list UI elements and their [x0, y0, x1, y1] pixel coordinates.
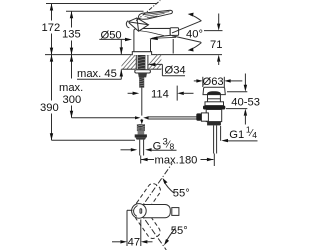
svg-text:40°: 40° — [186, 29, 203, 41]
svg-text:max.180: max.180 — [155, 154, 198, 166]
lever open position dash-dot line — [136, 0, 160, 20]
top view lever slot — [140, 209, 142, 213]
extension line handle closed top level — [66, 10, 144, 12]
hose extension to max180 — [140, 156, 142, 164]
threaded rod below nut — [139, 77, 144, 87]
svg-text:55°: 55° — [173, 187, 190, 199]
hose thread block — [137, 124, 145, 131]
label G3/8 underline — [152, 149, 177, 151]
svg-text:172: 172 — [42, 22, 61, 34]
pop-up rod horizontal — [148, 117, 199, 119]
label max.45 arrow to deck underside — [120, 70, 123, 80]
top view centerline upper — [139, 163, 172, 211]
dimension 172 line — [50, 4, 53, 55]
faucet shank thread in deck — [138, 55, 146, 70]
spout outlet centerline — [172, 39, 174, 54]
label Ø34 leader — [148, 63, 185, 76]
thread G3/8 arrows — [121, 148, 152, 151]
reference line supply connection level — [72, 117, 137, 119]
deck top line — [45, 54, 222, 56]
svg-text:390: 390 — [40, 102, 59, 114]
svg-text:135: 135 — [62, 29, 81, 41]
deck underside line — [122, 68, 162, 70]
top view base circle — [132, 204, 147, 219]
aerator block — [170, 28, 178, 36]
55 upper arc arrow — [162, 178, 174, 194]
svg-text:40-53: 40-53 — [231, 96, 260, 108]
top view dashed handle lower 55 — [133, 207, 162, 240]
top view base inner arc — [134, 206, 138, 217]
tailpipe extension line — [213, 154, 215, 167]
top view aerator tip — [172, 208, 179, 216]
svg-text:max.: max. — [59, 82, 83, 94]
dimension 71 — [204, 14, 223, 66]
waste neck — [208, 95, 221, 102]
40 degree upper arc arrow — [188, 13, 202, 21]
label Ø50 underline — [99, 38, 126, 40]
40 degree lower arc arrow — [188, 43, 202, 52]
lever blade — [138, 10, 172, 19]
label Ø50 arrow to body — [125, 38, 132, 41]
spout flow arrow — [149, 37, 176, 41]
svg-text:114: 114 — [151, 89, 169, 101]
dimension 40-53 — [226, 74, 247, 125]
hose tails — [140, 140, 144, 156]
deck hatch right block — [144, 53, 175, 70]
waste flange rim — [203, 106, 225, 110]
dimension 47 right extension — [140, 220, 142, 247]
40 degree upper leader — [172, 21, 201, 33]
hose small down arrow — [140, 119, 143, 124]
dimension 114 right arrow — [177, 92, 193, 95]
svg-text:47: 47 — [128, 236, 140, 248]
waste cap — [203, 87, 225, 94]
top view centerline lower — [139, 211, 166, 250]
svg-text:71: 71 — [210, 39, 222, 51]
reference line hose-end level — [52, 139, 136, 141]
waste body — [206, 110, 222, 122]
connection point arrows — [135, 116, 149, 119]
pull rod thin line — [141, 88, 143, 116]
dimension max.300 line — [70, 55, 73, 118]
svg-text:55°: 55° — [171, 225, 188, 237]
label max.45 underline — [77, 78, 121, 80]
deck hole right wall — [147, 55, 149, 70]
faucet body and spout — [134, 28, 170, 51]
waste plug dome — [207, 91, 221, 94]
label Ø50 drop line to deck — [120, 39, 123, 54]
faucet base collar — [132, 52, 151, 55]
dimension 114 right extension line — [176, 86, 178, 101]
lever cap left bulge — [126, 21, 129, 28]
spout inner line — [139, 31, 164, 36]
label G1 1/4 leader — [221, 126, 258, 142]
svg-text:max. 45: max. 45 — [77, 68, 117, 80]
top view handle pill — [139, 205, 170, 218]
dimension 114 left arrow — [128, 92, 140, 95]
dimension max.180 — [141, 158, 214, 161]
deck hatch left block — [118, 53, 149, 70]
mounting washer — [135, 70, 151, 73]
svg-text:Ø63: Ø63 — [203, 76, 224, 88]
deck hole left wall — [135, 55, 137, 70]
dimension 390 line — [50, 55, 53, 141]
dimension 135 line — [70, 11, 73, 54]
lever cap — [128, 18, 149, 31]
dimension Ø63 — [194, 77, 243, 87]
waste tailpipe — [214, 125, 217, 153]
top view dashed handle upper 55 — [134, 182, 163, 215]
dimension 47 left extension — [127, 210, 132, 246]
hose nut — [135, 134, 147, 139]
pop-up knob — [196, 113, 201, 120]
40 degree lower leader — [172, 36, 201, 42]
hose collar — [138, 131, 145, 134]
mounting nut — [138, 73, 147, 77]
pop-up knob housing — [201, 113, 208, 121]
dimension 47 arrows — [112, 240, 153, 243]
svg-text:300: 300 — [63, 94, 82, 106]
svg-text:Ø34: Ø34 — [165, 65, 186, 77]
55 lower arc arrow — [164, 228, 176, 245]
waste collar — [205, 102, 224, 106]
waste thread G1 1/4 — [207, 122, 221, 126]
extension line handle-open tip level — [46, 3, 157, 5]
